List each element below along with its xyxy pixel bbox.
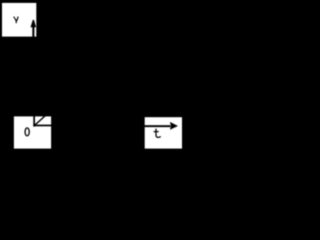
t-axis segment (in 0 box) xyxy=(33,125,52,127)
v-axis shaft (in v box) xyxy=(32,25,34,37)
v-axis segment (in 0 box) xyxy=(33,116,35,127)
label box 0 xyxy=(14,116,51,148)
label v xyxy=(14,17,19,24)
t-axis segment (in t box) xyxy=(144,125,171,127)
label t xyxy=(154,129,161,138)
label box v xyxy=(2,3,36,37)
v-axis arrowhead xyxy=(31,20,37,27)
t-axis arrowhead xyxy=(170,122,178,130)
label 0 xyxy=(25,128,29,136)
graph line (diagonal through origin) xyxy=(34,116,45,126)
label box t xyxy=(145,117,182,148)
